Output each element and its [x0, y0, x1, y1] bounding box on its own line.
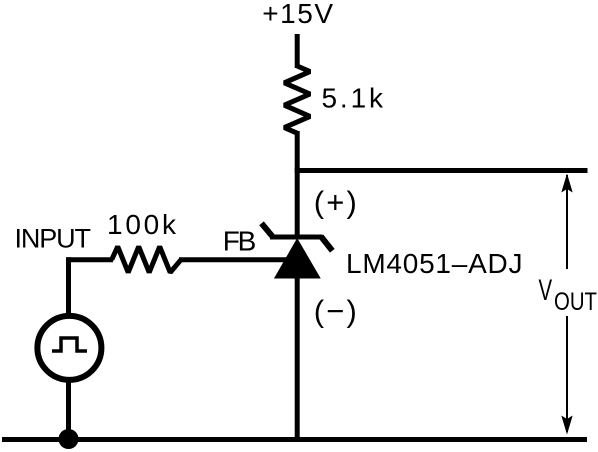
shunt regulator U1 cathode bar	[270, 235, 323, 240]
VOUT arrowhead up	[561, 174, 572, 193]
wire anode of U1 to ground rail	[295, 276, 300, 439]
svg-text:V: V	[539, 274, 553, 307]
svg-text:INPUT: INPUT	[15, 224, 92, 254]
svg-text:FB: FB	[223, 225, 256, 256]
VOUT dimension arrow lower segment	[566, 316, 568, 432]
resistor R1 5.1k (vertical zigzag)	[284, 66, 310, 133]
VOUT dimension arrow upper segment	[566, 175, 568, 269]
svg-text:5.1k: 5.1k	[322, 83, 385, 114]
svg-text:(+): (+)	[314, 184, 357, 219]
svg-text:100k: 100k	[107, 209, 177, 240]
shunt regulator U1 cathode right tick	[321, 237, 332, 251]
svg-text:LM4051–ADJ: LM4051–ADJ	[346, 248, 523, 279]
wire from +15V to resistor R1	[295, 34, 300, 68]
wire pulse source V1 to ground rail	[66, 380, 71, 439]
wire input node to resistor R2	[66, 257, 113, 262]
ground rail (bottom)	[2, 437, 587, 442]
pulse source V1 pulse waveform symbol	[52, 338, 87, 351]
resistor R2 100k (horizontal zigzag)	[112, 247, 181, 273]
wire FB input (from resistor R2 to anode of U1)	[179, 257, 288, 262]
wire input node down to pulse source V1	[66, 257, 71, 316]
shunt regulator U1 cathode left tick	[262, 223, 273, 236]
shunt regulator U1 anode triangle	[275, 239, 320, 278]
wire from R1 to cathode of U1	[295, 131, 300, 239]
wire top output rail (cathode node to right edge)	[295, 168, 588, 173]
svg-text:OUT: OUT	[554, 288, 597, 316]
svg-text:+15V: +15V	[262, 0, 333, 29]
VOUT arrowhead down	[561, 416, 572, 435]
svg-text:(−): (−)	[314, 293, 357, 328]
pulse source V1 circle	[37, 316, 101, 380]
junction dot at ground node	[59, 429, 79, 449]
